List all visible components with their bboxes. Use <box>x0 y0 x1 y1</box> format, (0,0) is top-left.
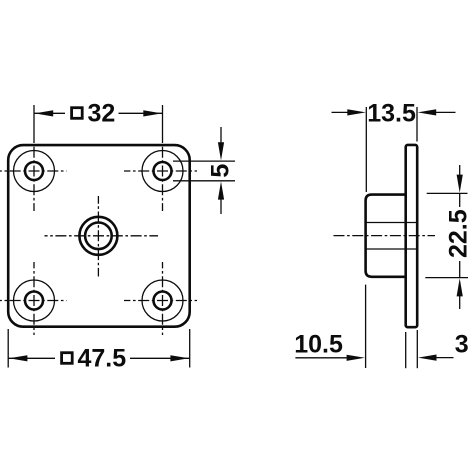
hole top-left: bore circle <box>25 162 43 180</box>
center hole: outer circle <box>79 217 117 255</box>
hole bottom-left: centerline vertical <box>33 262 35 335</box>
dim 10.5: extension line <box>365 285 367 368</box>
svg-text:13.5: 13.5 <box>367 99 416 127</box>
dim 5: dimension line above with down arrow <box>218 127 224 161</box>
dim 22.5: dimension line segment below top ext <box>459 193 461 207</box>
svg-text:32: 32 <box>88 100 116 128</box>
dim 13.5: extension line right <box>416 107 418 142</box>
dim 3: extension line right <box>416 330 418 368</box>
dim 47.5: dimension line left segment <box>8 357 55 359</box>
svg-text:22.5: 22.5 <box>445 209 470 258</box>
hole top-right: outer circle <box>142 151 183 192</box>
dim 32: square symbol <box>72 108 83 119</box>
hole bottom-left: centerline horizontal <box>0 300 67 302</box>
dim 3: extension line left <box>405 332 407 368</box>
dim 13.5: dimension line left with arrow <box>332 109 366 115</box>
dim 47.5: dimension line right segment <box>130 357 190 359</box>
hole top-right: centerline vertical (with extension to dim 32) <box>162 105 164 211</box>
side view: flange plate <box>406 145 418 327</box>
dim 47.5: extension line right <box>189 329 191 368</box>
dim 47.5: left arrow <box>9 355 28 361</box>
dim 22.5: dimension line top with down arrow <box>457 165 463 193</box>
dim 5: extension line bottom <box>173 180 235 182</box>
hole top-left: outer circle <box>14 151 55 192</box>
dim 47.5: right arrow <box>170 355 189 361</box>
hole bottom-right: outer circle <box>142 280 183 321</box>
dim 22.5: extension line bottom <box>425 277 468 279</box>
dim 47.5: square symbol <box>62 353 73 364</box>
dim 22.5: extension line top <box>427 192 468 194</box>
dim 22.5: dimension line segment above bottom ext <box>459 261 461 278</box>
center hole: centerline horizontal <box>45 235 159 237</box>
side view: boss outline <box>366 195 407 277</box>
hole bottom-left: outer circle <box>14 280 55 321</box>
center hole: inner circle <box>85 223 112 250</box>
side view: boss neck line bottom <box>366 248 417 250</box>
dim 32: right arrow <box>143 110 162 116</box>
dim 32: left arrow <box>35 110 54 116</box>
hole bottom-left: bore circle <box>25 292 43 310</box>
hole bottom-right: centerline vertical <box>162 262 164 335</box>
dim 3: dimension line with left arrow <box>418 355 454 361</box>
hole bottom-right: centerline horizontal <box>124 300 197 302</box>
dim 47.5: extension line left <box>7 329 9 368</box>
dim 5: dimension line below with up arrow <box>218 181 224 214</box>
front view: plate outline <box>8 145 190 327</box>
hole bottom-right: bore circle <box>154 292 172 310</box>
center hole: centerline vertical <box>97 196 99 277</box>
dim 13.5: dimension line right with arrow <box>418 109 456 115</box>
svg-text:5: 5 <box>207 164 235 178</box>
svg-text:47.5: 47.5 <box>78 345 127 373</box>
side view: boss neck line top <box>366 222 417 224</box>
dim 32: dimension line left segment <box>34 112 65 114</box>
dim 22.5: dimension line bottom with up arrow <box>457 278 463 309</box>
dim 32: dimension line right segment <box>119 112 163 114</box>
hole top-left: centerline horizontal <box>0 170 67 172</box>
dim 13.5: extension line left <box>365 107 367 192</box>
svg-text:3: 3 <box>455 330 469 358</box>
side view: centerline <box>334 235 436 237</box>
hole top-right: bore circle <box>154 162 172 180</box>
svg-text:10.5: 10.5 <box>294 330 343 358</box>
dim 5: extension line top <box>173 160 235 162</box>
dim 10.5: dimension line with right arrow <box>295 355 365 361</box>
hole top-right: centerline horizontal <box>124 170 197 172</box>
hole top-left: centerline vertical (with extension to dim 32) <box>33 105 35 211</box>
